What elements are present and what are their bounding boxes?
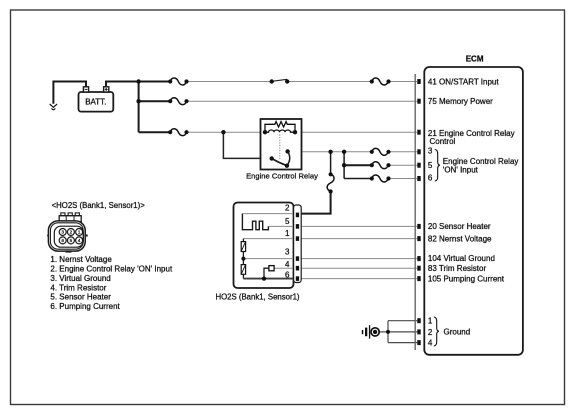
- svg-text:1: 1: [285, 229, 290, 238]
- svg-text:5: 5: [428, 161, 433, 170]
- svg-text:2. Engine Control Relay 'ON' I: 2. Engine Control Relay 'ON' Input: [50, 264, 173, 273]
- svg-text:6: 6: [428, 174, 433, 183]
- svg-text:HO2S (Bank1, Sensor1): HO2S (Bank1, Sensor1): [215, 293, 299, 302]
- svg-text:75 Memory Power: 75 Memory Power: [428, 97, 493, 106]
- svg-text:2: 2: [70, 230, 73, 235]
- svg-text:4: 4: [428, 338, 433, 347]
- svg-text:ECM: ECM: [466, 55, 484, 64]
- svg-text:5. Sensor Heater: 5. Sensor Heater: [50, 293, 111, 302]
- svg-text:83 Trim Resistor: 83 Trim Resistor: [428, 264, 487, 273]
- svg-text:3: 3: [285, 247, 290, 256]
- svg-text:<HO2S (Bank1, Sensor1)>: <HO2S (Bank1, Sensor1)>: [52, 201, 146, 210]
- svg-text:4: 4: [285, 260, 290, 269]
- svg-text:1. Nernst Voltage: 1. Nernst Voltage: [50, 255, 112, 264]
- svg-text:20 Sensor Heater: 20 Sensor Heater: [428, 222, 491, 231]
- svg-text:4. Trim Resistor: 4. Trim Resistor: [50, 284, 106, 293]
- svg-text:1: 1: [428, 316, 433, 325]
- svg-text:82 Nernst Voltage: 82 Nernst Voltage: [428, 234, 492, 243]
- svg-text:Ground: Ground: [444, 328, 471, 337]
- svg-text:6: 6: [61, 238, 64, 243]
- svg-text:3. Virtual Ground: 3. Virtual Ground: [50, 274, 110, 283]
- svg-text:'ON' Input: 'ON' Input: [443, 165, 479, 174]
- svg-text:6: 6: [285, 270, 290, 279]
- svg-text:4: 4: [78, 238, 81, 243]
- svg-text:Engine Control Relay: Engine Control Relay: [246, 172, 318, 181]
- svg-text:2: 2: [285, 203, 290, 212]
- svg-text:41 ON/START Input: 41 ON/START Input: [428, 77, 499, 86]
- svg-text:104 Virtual Ground: 104 Virtual Ground: [428, 254, 495, 263]
- svg-text:105 Pumping Current: 105 Pumping Current: [428, 274, 505, 283]
- svg-text:1: 1: [78, 230, 81, 235]
- svg-text:5: 5: [70, 238, 73, 243]
- svg-text:3: 3: [61, 230, 64, 235]
- svg-text:Control: Control: [430, 137, 456, 146]
- svg-text:5: 5: [285, 217, 290, 226]
- svg-text:3: 3: [428, 147, 433, 156]
- svg-text:2: 2: [428, 328, 433, 337]
- svg-text:BATT.: BATT.: [85, 97, 106, 106]
- svg-text:6. Pumping Current: 6. Pumping Current: [50, 302, 120, 311]
